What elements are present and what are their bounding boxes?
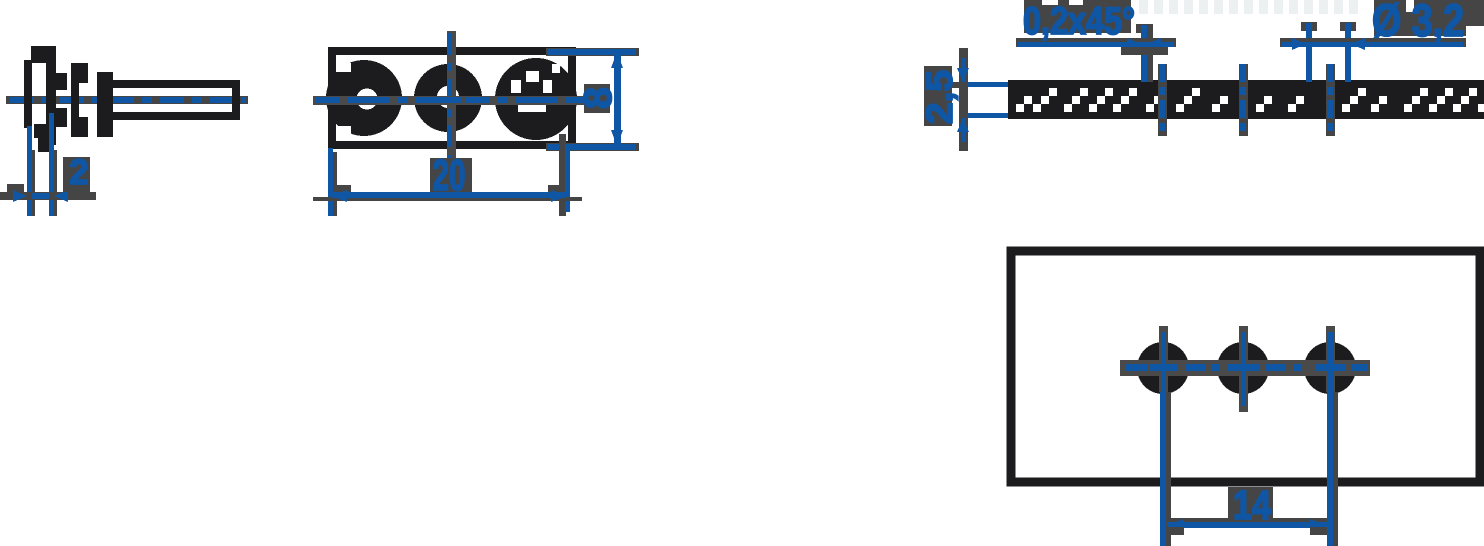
dim 14 left arrow stub: [1167, 527, 1184, 535]
chamfer leader line (gray): [1016, 38, 1176, 47]
rivet head circle 3 white notch top-right: [552, 64, 560, 73]
hole 1 center line (blue dashes): [1159, 64, 1165, 135]
dim 2 left arrow: [13, 190, 27, 202]
dim 8 dimension line: [614, 50, 621, 147]
dim 2 extension line 1: [27, 126, 32, 216]
horizontal center line over circles (blue dashes): [316, 97, 584, 103]
rivet head right bump lower: [56, 108, 67, 127]
dim 14 label halo: [1228, 487, 1273, 522]
svg-text:20: 20: [433, 151, 466, 200]
hole 3 center line (blue dashes): [1327, 64, 1333, 135]
dim 14 right arrow: [1310, 519, 1326, 531]
svg-text:2,5: 2,5: [919, 70, 960, 124]
dim 14 left arrow: [1168, 519, 1184, 531]
hole 2 center line (gray): [1239, 64, 1248, 136]
hole 2 vertical center line (blue): [1241, 332, 1246, 406]
plate outline: [332, 51, 572, 145]
dia 3,2 leader line (gray): [1280, 38, 1466, 47]
holes center line horizontal (blue dashes): [1126, 364, 1368, 371]
dim 2,5 bottom extension to bar: [968, 113, 1008, 118]
chamfer junction gray block: [1121, 47, 1168, 55]
rivet head circle 2: [414, 64, 482, 132]
dim 20 left extension line (gray): [333, 152, 337, 216]
dim 2 extension line 1 gray edge: [32, 150, 35, 216]
dim 8 bottom extension line (blue): [548, 144, 636, 150]
dim 2 label halo: [63, 157, 90, 192]
dia 3,2 label halo white notch: [1406, 0, 1414, 12]
dim 14 dimension line (gray): [1167, 518, 1327, 523]
rod shank top line: [108, 80, 240, 88]
hole 1: [1137, 342, 1189, 394]
vertical center line over circles (blue dashes): [448, 33, 452, 160]
dia 3,2 label halo corner: [1464, 0, 1484, 26]
dim 8 bottom extension line (gray): [546, 143, 639, 151]
dim 2 blue segment: [32, 193, 49, 199]
rod shank right end: [232, 80, 240, 120]
dim 2,5 dimension line (gray): [959, 48, 968, 151]
holes center line horizontal (gray): [1120, 360, 1370, 376]
dim 2,5 lower arrow: [957, 118, 969, 132]
rivet head circle 3: [495, 58, 577, 140]
dim 8 top extension line (blue): [548, 49, 636, 55]
rivet head right wall: [46, 60, 56, 145]
dim 20 left extension line (blue): [328, 148, 333, 216]
svg-text:0,2x45°: 0,2x45°: [1023, 0, 1135, 43]
hole 1 vertical center line (gray): [1159, 326, 1168, 392]
svg-text:14: 14: [1233, 482, 1271, 528]
chamfer leader line (blue): [1018, 42, 1174, 47]
hole 3 center line (gray): [1326, 64, 1335, 136]
dia 3,2 right arrow: [1351, 38, 1365, 50]
dia 3,2 left extension line: [1306, 23, 1312, 82]
horizontal center line over circles (gray): [313, 96, 586, 105]
chamfer left arrow: [1127, 38, 1141, 50]
dia 3,2 right extension line: [1345, 23, 1351, 82]
rivet head top cap: [31, 46, 56, 63]
dim 14 dimension line (blue): [1167, 522, 1327, 528]
center line horizontal (blue dashes): [10, 97, 246, 103]
rivet head left wall: [24, 60, 32, 128]
rivet head circle 3 white arc left: [511, 80, 521, 93]
svg-text:2: 2: [70, 153, 89, 192]
plate A top flange: [71, 63, 88, 83]
hole 1 center line (gray): [1158, 64, 1167, 136]
chamfer leader vertical (gray cap): [1136, 24, 1153, 33]
dim 2,5 lower blue segment: [961, 118, 966, 142]
dim 20 right arrow halo: [548, 185, 562, 193]
svg-text:Ø 3,2: Ø 3,2: [1372, 0, 1464, 46]
rivet head circle 1 hole: [357, 89, 378, 110]
dim 20 left arrow halo: [333, 185, 351, 193]
plate B body: [97, 72, 113, 137]
dim 20 right extension line (blue): [565, 144, 570, 212]
dim 2,5 upper arrow: [957, 68, 969, 82]
rivet head circle 3 white band below: [518, 103, 546, 112]
vertical center line over circles (gray): [447, 31, 456, 162]
dim 20 left arrow: [331, 190, 347, 202]
dim 2 right arrow: [54, 190, 68, 202]
dim 2,5 label halo: [924, 66, 952, 126]
dim 2,5 top extension to bar: [968, 82, 1008, 87]
plate A web: [71, 63, 79, 137]
chamfer right arrow: [1147, 38, 1161, 50]
dia 3,2 left extension line cap: [1301, 22, 1317, 31]
rivet head circle 1 top-left notch: [336, 63, 351, 72]
dia 3,2 leader line (blue): [1282, 42, 1463, 47]
dim 20 blue segment: [332, 192, 566, 198]
dim 20 right arrow: [551, 190, 567, 202]
dia 3,2 right extension line cap: [1340, 22, 1356, 31]
hole 2: [1217, 342, 1269, 394]
dim 14 left extension line (blue): [1160, 392, 1166, 546]
rivet head bottom tail: [38, 136, 50, 152]
dim 14 right extension line (blue): [1327, 392, 1333, 546]
dim 2 left thick stub: [7, 184, 24, 193]
dia 3,2 label halo block: [1374, 0, 1466, 36]
bar hatching (white square runs): [1016, 88, 1484, 112]
blue cross segment circle 3: [520, 97, 550, 103]
blue cross segment circle 2: [434, 97, 462, 103]
dim 14 right extension line (gray): [1333, 392, 1338, 546]
faint artifact stripes top edge: [1139, 0, 1358, 14]
rivet head circle 1 bottom-left notch: [338, 126, 351, 136]
rivet head circle 3 white arc right: [543, 80, 552, 93]
svg-text:8: 8: [577, 87, 620, 109]
dim 14 right arrow stub: [1310, 527, 1327, 535]
chamfer label halo block: [1024, 0, 1131, 33]
dim 2 extension line 2 gray edge: [54, 150, 57, 216]
dim 2 dimension line (gray): [0, 192, 96, 200]
dia 3,2 left arrow: [1292, 38, 1306, 50]
dim 20 right extension line (gray): [559, 134, 566, 216]
plate outline: [1011, 251, 1480, 482]
dim 8 top extension line (gray): [546, 48, 639, 56]
plate A bottom flange: [71, 117, 88, 137]
dim 8 bottom arrow: [611, 130, 623, 146]
dim 20 label halo: [430, 158, 472, 192]
rivet head right bump upper: [56, 73, 67, 90]
chamfer leader vertical (gray right edge): [1147, 30, 1153, 82]
chamfer label halo white notch 1: [1042, 0, 1058, 5]
rivet head bottom chunk: [34, 124, 50, 138]
hole 2 vertical center line (gray): [1239, 326, 1248, 412]
dim 2,5 upper blue segment: [961, 58, 966, 82]
dim 8 top arrow: [611, 52, 623, 68]
dim 2,5 gray stub left: [943, 82, 959, 88]
dim 14 left extension line (gray): [1166, 392, 1171, 546]
hole 1 blue cross vertical: [1161, 332, 1166, 392]
center line horizontal (gray): [6, 96, 248, 104]
blue cross segment circle 1: [350, 97, 380, 103]
rivet head circle 3 white notch top: [526, 71, 539, 82]
hole 3: [1304, 342, 1356, 394]
dim 20 dimension line (gray): [313, 197, 582, 201]
chamfer leader vertical (blue): [1141, 25, 1147, 82]
chamfer label halo white notch 2: [1069, 0, 1083, 5]
hole 3 vertical center line (gray): [1326, 326, 1335, 392]
dim 2 extension line 2: [49, 113, 54, 216]
rivet head circle 2 hole: [437, 86, 459, 108]
hole 2 center line (blue dashes): [1240, 64, 1246, 135]
rivet head circle 1: [326, 60, 402, 136]
rod shank bottom line: [108, 112, 240, 120]
hole 3 blue cross vertical: [1328, 332, 1333, 392]
dim 8 label halo: [584, 84, 610, 113]
bar body: [1008, 80, 1484, 119]
